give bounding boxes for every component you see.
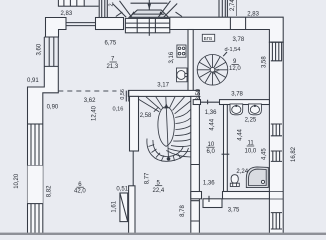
tick 2,58 xyxy=(154,107,159,112)
window right wall 4 xyxy=(271,213,282,229)
wash basin 2 xyxy=(249,104,262,115)
svg-text:10,0: 10,0 xyxy=(245,148,257,154)
svg-text:0,90: 0,90 xyxy=(47,105,59,111)
kitchen sink xyxy=(177,68,188,82)
вгв label box xyxy=(202,34,214,41)
partition room5/6 thick lower xyxy=(129,186,135,235)
svg-text:16,82: 16,82 xyxy=(291,146,297,162)
bottom curl outer xyxy=(147,139,189,162)
porch steps xyxy=(125,18,169,32)
svg-text:1,36: 1,36 xyxy=(205,110,217,116)
walk line with dot xyxy=(167,157,171,161)
left wall step (0,91/0,90) xyxy=(28,67,59,235)
svg-text:4,44: 4,44 xyxy=(209,118,215,130)
window top wall left xyxy=(66,23,96,26)
porch arrow right xyxy=(160,11,164,15)
window left wall mid xyxy=(28,124,43,166)
line room9 xyxy=(232,63,239,65)
threshold box room 3,75 xyxy=(203,199,222,208)
window left wall lower (cut) xyxy=(31,204,39,235)
svg-text:42,0: 42,0 xyxy=(74,188,86,194)
svg-text:3,75: 3,75 xyxy=(228,208,240,214)
tick on wall 10/11 xyxy=(222,153,230,155)
wash basin 1 xyxy=(230,104,243,115)
window right wall 1 xyxy=(271,42,282,61)
svg-text:d-1,54: d-1,54 xyxy=(225,47,241,53)
svg-text:3,16: 3,16 xyxy=(169,51,175,63)
svg-text:4,44: 4,44 xyxy=(238,128,244,140)
fan treads top xyxy=(139,97,191,114)
toilet xyxy=(231,175,238,184)
svg-text:2,83: 2,83 xyxy=(61,11,73,17)
svg-text:10,20: 10,20 xyxy=(14,173,20,189)
kitchen wall (room7 / room9) xyxy=(188,30,193,97)
svg-text:8,82: 8,82 xyxy=(47,185,53,197)
curl step ticks xyxy=(149,145,181,161)
porch arrow left xyxy=(131,11,135,15)
left wall pier joint xyxy=(28,123,43,125)
porch canopy upper edge xyxy=(131,2,168,4)
svg-text:8,77: 8,77 xyxy=(145,172,151,184)
wall top-left corner block xyxy=(46,18,67,38)
dashed opening room6/7 xyxy=(58,90,116,92)
window left wall upper xyxy=(44,37,58,66)
window right wall 3 xyxy=(271,151,282,161)
porch fan steps left xyxy=(113,1,132,18)
corner shower xyxy=(246,167,268,188)
dimension and room texts xyxy=(14,0,297,217)
svg-text:0,56: 0,56 xyxy=(120,89,126,100)
svg-text:0,51: 0,51 xyxy=(116,187,128,193)
stub wall 0,16 xyxy=(126,91,129,102)
svg-text:3,58: 3,58 xyxy=(262,56,268,68)
flue with diagonal xyxy=(120,193,128,222)
svg-text:21,3: 21,3 xyxy=(107,64,119,70)
svg-text:22,4: 22,4 xyxy=(153,188,165,194)
spiral staircase xyxy=(197,55,228,86)
fixtures xyxy=(177,45,284,199)
svg-text:6,75: 6,75 xyxy=(105,40,117,46)
stair enclosure left wall xyxy=(130,96,139,151)
line room6 xyxy=(77,186,84,188)
svg-text:2,25: 2,25 xyxy=(245,118,257,124)
svg-text:2,: 2, xyxy=(109,1,115,6)
svg-text:2,74: 2,74 xyxy=(230,0,236,11)
right wall joints at bathroom xyxy=(269,192,283,200)
room label fraction lines xyxy=(77,62,255,187)
line room10 xyxy=(206,146,214,148)
treads right arcs xyxy=(166,110,190,158)
stair enclosure right wall / room5 east wall xyxy=(191,96,200,235)
porch side wall upper-left (cut) xyxy=(99,0,107,17)
right outer wall xyxy=(269,42,283,235)
svg-text:2,24: 2,24 xyxy=(236,169,248,175)
svg-text:12,40: 12,40 xyxy=(91,105,97,121)
top wall joints xyxy=(230,17,245,29)
winder staircase room5 xyxy=(139,97,191,162)
top wall right section xyxy=(170,17,283,42)
svg-text:ВГВ: ВГВ xyxy=(204,36,213,41)
wall pier left of porch xyxy=(96,18,124,30)
porch canopy fascia xyxy=(134,13,165,15)
door room9-corridor threshold xyxy=(201,100,220,105)
left wall pier 2 xyxy=(28,166,43,204)
line room11 xyxy=(247,145,255,147)
svg-text:2,83: 2,83 xyxy=(247,11,259,17)
scan edge bottom xyxy=(0,233,326,235)
porch canopy xyxy=(129,10,168,17)
svg-text:0,91: 0,91 xyxy=(27,78,39,84)
window box cut at top-left xyxy=(58,0,98,6)
svg-text:1,61: 1,61 xyxy=(112,200,118,212)
svg-text:12,0: 12,0 xyxy=(229,66,241,72)
wall room10/room11 xyxy=(224,105,228,192)
bottom wall corridor/bathroom with door gap xyxy=(191,192,202,199)
extension line top right xyxy=(235,0,237,16)
svg-text:3,60: 3,60 xyxy=(37,43,43,55)
svg-text:3,17: 3,17 xyxy=(157,83,169,89)
window right wall 2 xyxy=(271,124,282,136)
svg-text:0,16: 0,16 xyxy=(113,106,124,112)
svg-text:3,78: 3,78 xyxy=(233,37,245,43)
svg-text:3,62: 3,62 xyxy=(84,98,96,104)
svg-text:8,78: 8,78 xyxy=(180,205,186,217)
stair enclosure top wall xyxy=(128,90,199,96)
room9 south wall with door gap xyxy=(193,100,200,105)
partition room5/6 thin xyxy=(132,151,134,186)
svg-text:2,58: 2,58 xyxy=(140,113,152,119)
svg-text:4,45: 4,45 xyxy=(262,148,268,160)
bottom curl inner xyxy=(153,140,183,157)
line room5 xyxy=(155,185,162,187)
leader d-1,54 xyxy=(223,52,227,56)
egg newel curve xyxy=(158,107,174,147)
svg-text:3,59: 3,59 xyxy=(196,88,202,100)
porch centre line with arrow xyxy=(148,0,150,36)
porch fan steps right xyxy=(158,1,182,18)
svg-text:3,78: 3,78 xyxy=(231,92,243,98)
stove xyxy=(177,45,186,57)
svg-text:6,0: 6,0 xyxy=(207,149,216,155)
porch side wall upper-right (cut) xyxy=(219,0,227,17)
svg-text:1,36: 1,36 xyxy=(203,180,215,186)
line room7 xyxy=(110,61,117,63)
